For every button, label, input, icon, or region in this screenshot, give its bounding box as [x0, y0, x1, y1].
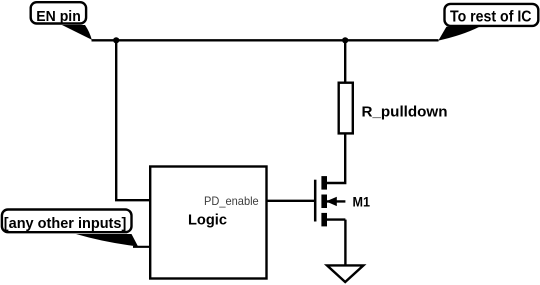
- node To rest of IC callout: [438, 4, 538, 41]
- junction dot pulldown branch: [342, 37, 348, 43]
- svg-text:Logic: Logic: [188, 211, 227, 228]
- svg-text:M1: M1: [353, 193, 371, 209]
- svg-text:EN pin: EN pin: [36, 9, 81, 25]
- wire top net down to resistor: [344, 40, 346, 82]
- wire source to ground: [344, 220, 346, 266]
- junction dot EN branch: [113, 37, 119, 43]
- svg-text:PD_enable: PD_enable: [204, 194, 259, 208]
- wire EN junction down and into logic block: [116, 40, 150, 200]
- wire logic output to gate: [266, 200, 316, 202]
- svg-text:[any other inputs]: [any other inputs]: [4, 215, 127, 232]
- logic block: [150, 167, 266, 279]
- transistor M1 NMOS: [315, 176, 345, 226]
- ground: [327, 265, 363, 282]
- node EN pin callout: [31, 2, 92, 40]
- resistor R_pulldown: [339, 83, 353, 134]
- svg-text:To rest of IC: To rest of IC: [450, 9, 532, 26]
- wire resistor to drain: [327, 134, 345, 184]
- svg-text:R_pulldown: R_pulldown: [362, 103, 448, 120]
- wire top net EN to rest of IC: [92, 39, 439, 41]
- wire callout tail to logic block: [133, 246, 150, 248]
- node any other inputs callout: [2, 210, 138, 247]
